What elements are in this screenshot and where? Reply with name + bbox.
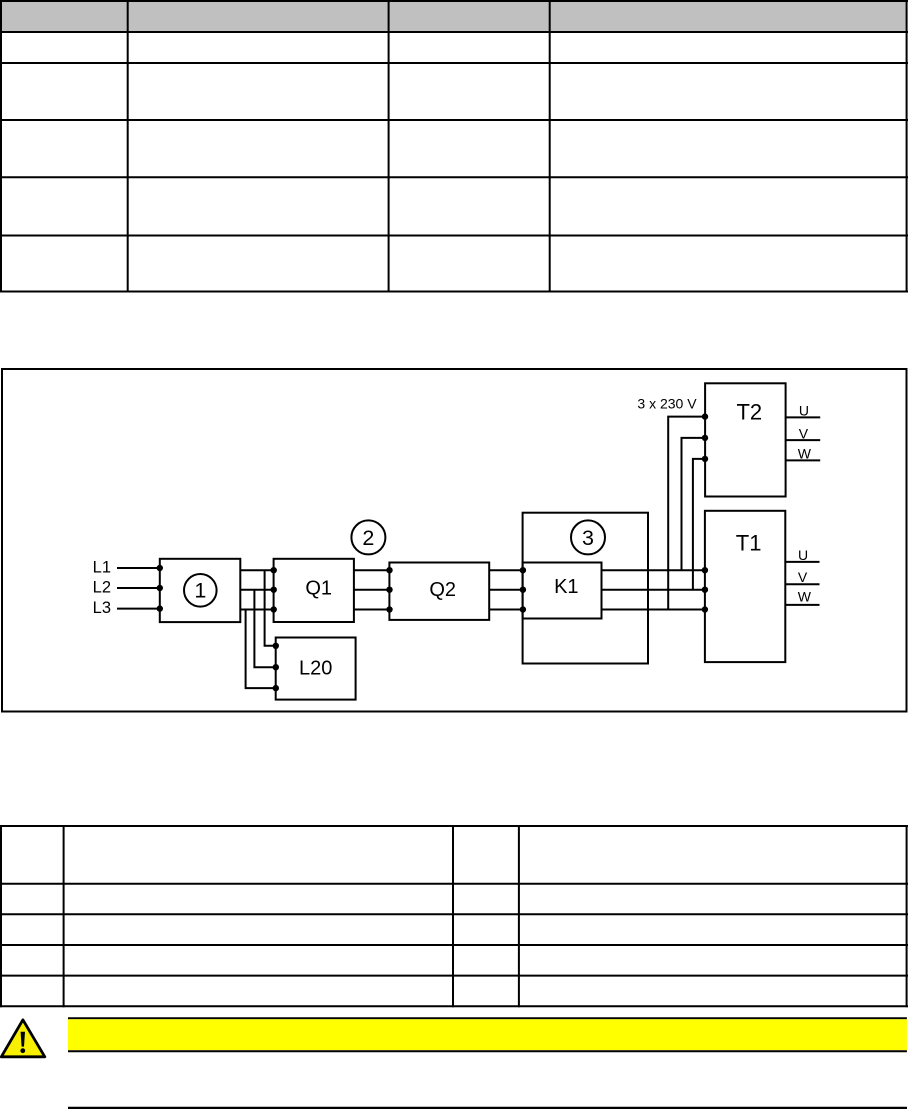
- wire K1 to T1 phase 2: [602, 589, 705, 591]
- legend table: [0, 825, 908, 1007]
- junction dot K1 pin 1: [520, 567, 526, 573]
- transformer T2: [705, 383, 786, 496]
- svg-text:W: W: [798, 446, 812, 462]
- wire T1 output V: [785, 583, 819, 585]
- svg-text:U: U: [799, 403, 809, 419]
- warning rule bottom: [68, 1050, 907, 1052]
- svg-text:Q2: Q2: [429, 579, 456, 601]
- junction dot K1 pin 3: [520, 606, 526, 612]
- svg-text:2: 2: [362, 526, 374, 550]
- svg-text:W: W: [798, 589, 812, 605]
- junction dot T2 pin 1: [702, 413, 708, 419]
- wire box1 to Q1 phase 1: [240, 569, 273, 571]
- junction dot L20 pin 1: [273, 643, 279, 649]
- junction dot Q1 pin 3: [271, 606, 277, 612]
- wire L3 input stub: [117, 608, 160, 610]
- figure frame: [2, 369, 907, 712]
- wire Q2 to K1 phase 3: [489, 609, 523, 611]
- junction dot K1 pin 2: [520, 587, 526, 593]
- junction dot Q2 pin 1: [386, 567, 392, 573]
- svg-text:3: 3: [582, 526, 594, 550]
- junction dot T1 pin 2: [702, 587, 708, 593]
- wire Q1 to Q2 phase 2: [354, 589, 390, 591]
- junction dot Q1 pin 1: [271, 567, 277, 573]
- wire box1 to Q1 phase 3: [240, 609, 273, 611]
- wire T2 output W: [786, 459, 821, 461]
- warning rule top: [68, 1017, 907, 1019]
- svg-text:3 x 230 V: 3 x 230 V: [637, 395, 697, 411]
- junction dot Q1 pin 2: [271, 587, 277, 593]
- breaker Q1: [274, 559, 354, 622]
- contactor Q2: [389, 563, 489, 620]
- wire T1 output W: [785, 604, 819, 606]
- svg-text:V: V: [799, 425, 809, 441]
- svg-text:L20: L20: [299, 658, 332, 680]
- junction dot L20 pin 3: [273, 685, 279, 691]
- wire Q1 to Q2 phase 3: [354, 609, 390, 611]
- junction dot Q2 pin 3: [386, 606, 392, 612]
- wire L1 input stub: [117, 567, 160, 569]
- wire Q1 to Q2 phase 1: [354, 569, 390, 571]
- junction dot L20 pin 2: [273, 664, 279, 670]
- callout circle 1: [184, 574, 217, 607]
- wire Q2 to K1 phase 1: [489, 569, 523, 571]
- wire drop to L20 pin 2: [254, 590, 276, 668]
- svg-text:T1: T1: [736, 531, 762, 556]
- svg-text:L1: L1: [93, 558, 111, 576]
- svg-text:1: 1: [194, 579, 206, 603]
- junction dot T2 pin 3: [702, 456, 708, 462]
- svg-text:Q1: Q1: [305, 577, 332, 599]
- wire box1 to Q1 phase 2: [240, 589, 273, 591]
- junction dot T1 pin 3: [702, 606, 708, 612]
- svg-text:U: U: [798, 547, 808, 563]
- junction dot Q2 pin 2: [386, 587, 392, 593]
- warning triangle icon: [1, 1020, 45, 1057]
- junction dot T1 pin 1: [702, 567, 708, 573]
- svg-text:L3: L3: [93, 599, 111, 617]
- svg-text:T2: T2: [736, 400, 762, 425]
- top table header row grey fill: [0, 2, 906, 31]
- junction dot L2 at box 1: [157, 585, 163, 591]
- wire Q2 to K1 phase 2: [489, 589, 523, 591]
- top table grid: [0, 0, 908, 293]
- svg-text:V: V: [798, 569, 808, 585]
- warning highlight bar: [68, 1019, 907, 1050]
- callout circle 2: [351, 520, 385, 554]
- junction dot L1 at box 1: [157, 565, 163, 571]
- wire K1 to T1 phase 1: [602, 569, 705, 571]
- wire T2 feed 1 from phase 3: [668, 417, 705, 610]
- svg-text:L2: L2: [93, 578, 111, 596]
- footer rule: [68, 1107, 907, 1109]
- callout circle 3: [571, 520, 605, 554]
- junction dot T2 pin 2: [702, 435, 708, 441]
- module box 3 outline: [523, 513, 648, 664]
- relay K1: [523, 563, 602, 619]
- wire K1 to T1 phase 3: [602, 609, 705, 611]
- wire T2 feed 3 from phase 2: [693, 459, 705, 590]
- transformer T1: [705, 511, 785, 662]
- junction dot L3 at box 1: [157, 605, 163, 611]
- wire drop to L20 pin 1: [265, 570, 276, 646]
- svg-text:K1: K1: [554, 576, 578, 598]
- wire drop to L20 pin 3: [246, 610, 276, 689]
- wire T2 output U: [786, 416, 821, 418]
- wire L2 input stub: [117, 587, 160, 589]
- wire T2 feed 2 from phase 1: [682, 438, 706, 570]
- wire T1 output U: [785, 561, 819, 563]
- box 1 (mains input block): [160, 559, 241, 622]
- wire T2 output V: [786, 439, 821, 441]
- filter L20: [276, 638, 356, 700]
